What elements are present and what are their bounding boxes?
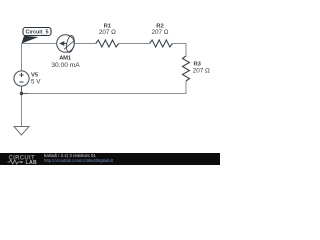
wire top-left corner to ammeter xyxy=(22,43,58,45)
ground xyxy=(14,127,29,136)
svg-text:5 V: 5 V xyxy=(31,79,41,86)
logo zigzag xyxy=(8,160,21,164)
resistor R1 xyxy=(96,40,119,47)
svg-text:207 Ω: 207 Ω xyxy=(193,68,210,75)
svg-text:R3: R3 xyxy=(194,62,202,68)
svg-text:207 Ω: 207 Ω xyxy=(99,29,116,36)
ammeter AM1 xyxy=(57,35,76,53)
V5 bottom lead xyxy=(22,86,29,94)
svg-text:AM1: AM1 xyxy=(59,55,72,61)
wire R3 to bottom corner and left to junction xyxy=(22,81,187,94)
voltage source V5 xyxy=(14,71,29,86)
node label Circuit_5 box xyxy=(23,28,51,36)
footer bar xyxy=(0,153,220,165)
wire R2 to right corner down to R3 xyxy=(172,44,186,57)
wire ammeter to R1 xyxy=(74,43,96,45)
wire V5 to ground xyxy=(21,86,23,127)
junction dot xyxy=(20,92,23,95)
resistor R3 xyxy=(183,56,190,81)
wire R1 to R2 xyxy=(119,43,150,45)
svg-text:http://circuitlab.com/c/c9ka4b: http://circuitlab.com/c/c9ka4b5g8ab4t xyxy=(44,158,114,163)
wire left vertical corner to V5 xyxy=(21,44,23,72)
svg-text:207 Ω: 207 Ω xyxy=(152,29,169,36)
resistor R2 xyxy=(150,40,173,47)
svg-text:LAB: LAB xyxy=(26,160,38,165)
node label Circuit_5 callout tail xyxy=(22,36,39,44)
svg-text:30.00 mA: 30.00 mA xyxy=(51,62,80,69)
svg-text:Circuit_5: Circuit_5 xyxy=(25,29,48,35)
